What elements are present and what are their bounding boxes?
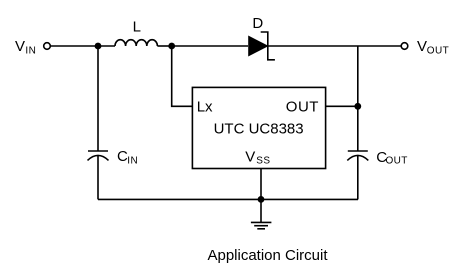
wire node B down and right to Lx pin bbox=[172, 46, 193, 106]
node B junction dot bbox=[168, 43, 175, 50]
terminal VIN bbox=[44, 43, 51, 50]
diode D (Schottky) bbox=[249, 32, 275, 60]
wire node A to inductor bbox=[98, 45, 115, 47]
label UTC UC8383 bbox=[214, 120, 304, 137]
pin label Lx bbox=[197, 99, 213, 116]
capacitor COUT bbox=[347, 151, 368, 160]
label D bbox=[252, 15, 263, 32]
svg-text:V: V bbox=[15, 38, 25, 55]
svg-text:UTC UC8383: UTC UC8383 bbox=[214, 120, 304, 137]
wire node B to diode anode bbox=[172, 45, 248, 47]
wire CIN down to bottom rail bbox=[97, 155, 99, 199]
svg-text:OUT: OUT bbox=[286, 99, 319, 116]
svg-text:Lx: Lx bbox=[197, 99, 213, 116]
svg-text:OUT: OUT bbox=[427, 45, 449, 56]
label VIN bbox=[15, 38, 36, 56]
label VOUT bbox=[417, 38, 449, 56]
inductor L bbox=[115, 40, 157, 46]
wire top rail down through node C to COUT bbox=[357, 46, 359, 151]
wire inductor to node B bbox=[157, 45, 171, 47]
label L bbox=[133, 18, 141, 35]
wire node A down to CIN bbox=[97, 46, 99, 151]
ground bbox=[251, 199, 272, 228]
wire COUT down to bottom rail bbox=[357, 155, 359, 199]
wire VSS pin down to node D bbox=[260, 169, 262, 200]
pin label OUT bbox=[286, 99, 319, 116]
wire bottom rail bbox=[98, 198, 358, 200]
wire OUT pin to node C bbox=[326, 105, 358, 107]
svg-text:SS: SS bbox=[256, 156, 270, 167]
terminal VOUT bbox=[401, 43, 408, 50]
svg-text:L: L bbox=[133, 18, 141, 35]
node D junction dot bbox=[258, 196, 265, 203]
svg-text:V: V bbox=[245, 148, 255, 165]
svg-text:V: V bbox=[417, 38, 427, 55]
svg-text:D: D bbox=[252, 15, 263, 32]
wire diode cathode to VOUT terminal bbox=[268, 45, 401, 47]
label COUT bbox=[376, 149, 408, 167]
svg-text:IN: IN bbox=[127, 155, 138, 166]
caption Application Circuit bbox=[207, 247, 328, 264]
node C junction dot bbox=[354, 103, 361, 110]
capacitor CIN bbox=[88, 151, 109, 160]
label CIN bbox=[117, 148, 138, 166]
svg-text:Application Circuit: Application Circuit bbox=[207, 247, 328, 264]
node A junction dot bbox=[95, 43, 102, 50]
wire VIN terminal to node A bbox=[51, 45, 99, 47]
pin label VSS bbox=[245, 148, 270, 166]
svg-text:OUT: OUT bbox=[386, 156, 408, 167]
svg-text:IN: IN bbox=[25, 45, 36, 56]
IC U1 UTC UC8383 bbox=[192, 87, 325, 168]
